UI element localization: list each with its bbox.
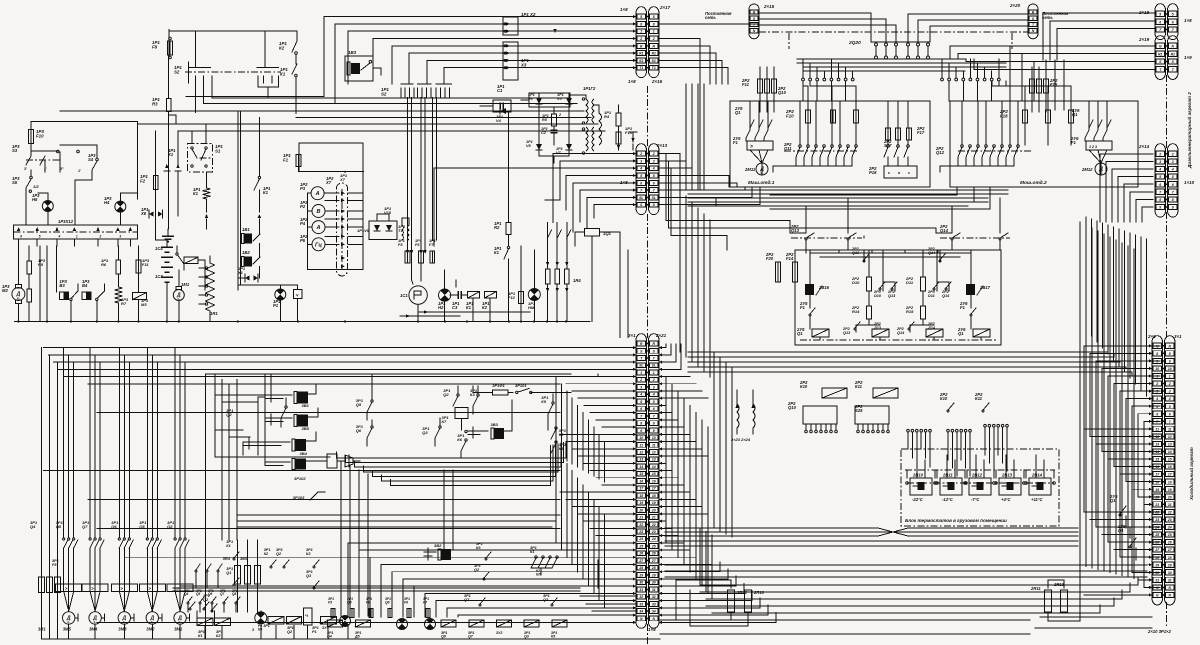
motor 3&#1052;1 [175, 591, 180, 611]
svg-text:Q2: Q2 [276, 552, 282, 556]
svg-text:26: 26 [1167, 541, 1172, 545]
wire X21 31 right [659, 562, 720, 572]
fuse row f8b [407, 609, 411, 618]
svg-text:1: 1 [640, 30, 642, 34]
svg-text:1: 1 [1156, 375, 1158, 379]
res 2R10 [745, 590, 752, 612]
riser f2 [320, 24, 335, 103]
comb up group b [947, 429, 950, 432]
bundle 527 b [665, 531, 1078, 533]
svg-text:3М2: 3М2 [146, 627, 155, 632]
contact 1P1 K2 [296, 31, 298, 41]
svg-text:3В3: 3В3 [491, 422, 499, 427]
svg-text:Q4: Q4 [30, 524, 36, 529]
svg-text:F8: F8 [152, 44, 158, 49]
lamp 3P1 bt0 [340, 616, 351, 627]
thermal box wires col3 [118, 584, 120, 592]
wire 1Q1 to A3 [600, 232, 620, 246]
box1 contactor feed [749, 101, 751, 112]
bus bl SL [59, 368, 637, 370]
fuse row q5 [350, 609, 354, 618]
motor 3&#1052;3 [119, 591, 124, 611]
motor 1M1 [173, 290, 184, 301]
wire B4 27 left [1114, 549, 1152, 551]
riser f6 [408, 53, 410, 84]
svg-text:Q13: Q13 [888, 294, 896, 298]
svg-text:23: 23 [638, 530, 643, 534]
thermostat 2B12 [969, 478, 991, 495]
svg-text:1В2: 1В2 [242, 250, 250, 255]
svg-text:8: 8 [1159, 198, 1161, 202]
relay 1P3 M3 [132, 293, 146, 300]
svg-text:5: 5 [1169, 405, 1171, 409]
svg-text:34: 34 [639, 610, 643, 614]
device Ch [294, 290, 303, 299]
contacts 2P2 D11 Q14 [933, 288, 935, 290]
coil 2P2 K11 [873, 388, 898, 398]
thermal box wires col2 [89, 584, 91, 592]
svg-text:Р3: Р3 [300, 186, 306, 191]
wire B4 5 left [1114, 383, 1152, 385]
wire X21 cell34 left [458, 614, 636, 616]
thermo top feeds [916, 455, 918, 478]
B4 bottom stub lines [1152, 345, 1160, 347]
Q13 upper verticals [863, 250, 865, 262]
svg-text:9: 9 [1172, 206, 1174, 210]
svg-text:Х7: Х7 [325, 180, 332, 185]
wire T from X15 [759, 25, 896, 42]
svg-text:1В1: 1В1 [242, 227, 250, 232]
wire X21 5 right [659, 383, 696, 385]
svg-text:29: 29 [651, 573, 656, 577]
svg-text:Q7: Q7 [464, 598, 470, 602]
svg-text:S1: S1 [215, 148, 221, 153]
svg-text:-7°С: -7°С [971, 497, 980, 502]
svg-text:S4: S4 [88, 157, 94, 162]
logic extra h1 [215, 456, 330, 458]
contact 1P1 K1 [295, 74, 298, 77]
coil 2P2 Q14 [926, 329, 943, 337]
wire R from X15 [759, 13, 871, 42]
motor 2M12 [1095, 163, 1107, 175]
svg-text:16: 16 [639, 479, 643, 483]
svg-text:Q3: Q3 [422, 430, 428, 435]
bundle below relaybox a [688, 351, 1060, 353]
relay 3B1 [297, 392, 308, 404]
wire X21 cell2 left [566, 383, 636, 385]
svg-text:1×8: 1×8 [620, 7, 628, 12]
wire X21 cell14 left [590, 470, 636, 472]
wire feeder line 8 to X17 [444, 67, 636, 69]
coil row r1 [328, 620, 343, 627]
svg-text:3М1: 3М1 [174, 627, 183, 632]
svg-text:2В12: 2В12 [971, 473, 983, 478]
svg-text:Q8: Q8 [232, 592, 236, 596]
svg-text:3: 3 [119, 235, 121, 239]
svg-text:3~: 3~ [67, 620, 71, 624]
lamp 1P1 H2 [439, 289, 451, 301]
svg-text:Р5: Р5 [300, 238, 306, 243]
wire X21 37 right [659, 605, 768, 615]
double line mid [173, 587, 580, 589]
thermostat 2B14 [1029, 478, 1051, 495]
contact 1P1 K1d [507, 246, 509, 248]
svg-text:15: 15 [652, 472, 656, 476]
coil 2P2 Q13 [872, 329, 889, 337]
device Ch2 [303, 608, 312, 625]
svg-text:Q7: Q7 [82, 524, 88, 529]
coil 3U1 bt [320, 617, 336, 625]
svg-text:3В5: 3В5 [302, 426, 310, 431]
motor feeder column 4 [146, 348, 148, 538]
drop A2-7 [586, 197, 588, 228]
coil row r7 [552, 620, 567, 627]
svg-text:КЛ: КЛ [536, 572, 541, 576]
logic extra v1 [214, 374, 216, 457]
wire X13 cell 7 left [580, 189, 636, 191]
svg-text:сеть: сеть [1042, 15, 1053, 20]
svg-text:4: 4 [652, 393, 655, 397]
coil 1P1 K2c [484, 292, 496, 299]
thermal 2US F1 [747, 141, 773, 150]
svg-text:29: 29 [1154, 563, 1159, 567]
svg-text:D11: D11 [906, 280, 914, 285]
svg-text:23: 23 [1167, 518, 1172, 522]
wire X21 c21 long [88, 498, 560, 500]
svg-text:3В2: 3В2 [434, 543, 442, 548]
bus h110 ext [60, 110, 70, 112]
wire X21 15 right [659, 455, 708, 457]
svg-text:26: 26 [651, 552, 656, 556]
diode 1P1 V7 [566, 144, 572, 150]
svg-text:2: 2 [1168, 382, 1171, 386]
svg-text:5: 5 [640, 400, 642, 404]
fuses 2P2 F17 [886, 128, 891, 140]
fuse trio 2P2 F11 [758, 79, 763, 93]
relaybox col2 wires [868, 250, 870, 277]
svg-text:-22°С: -22°С [912, 497, 924, 502]
wire B4 12 left [1090, 435, 1152, 437]
motor feeder column 3 [118, 348, 120, 538]
svg-text:к: к [888, 171, 890, 175]
svg-text:10: 10 [1155, 367, 1159, 371]
coil row r2 [355, 620, 370, 627]
svg-text:Мош.отд.2: Мош.отд.2 [1020, 180, 1047, 186]
comb up group c [984, 424, 987, 427]
res 2R11 [1045, 590, 1052, 612]
res 1P1 R4b [616, 113, 621, 126]
svg-text:24: 24 [651, 537, 656, 541]
svg-text:1С1: 1С1 [400, 293, 408, 298]
coil 3P1 K4 bt [268, 617, 284, 625]
meter 1P2 P2 [312, 205, 325, 218]
svg-text:14: 14 [1155, 450, 1159, 454]
svg-text:F14: F14 [786, 256, 794, 261]
svg-text:8: 8 [1172, 198, 1174, 202]
svg-text:11: 11 [639, 443, 643, 447]
wire meter box right [362, 143, 364, 269]
B4 nest verticals [1083, 346, 1085, 429]
wire R from X20 [908, 14, 1028, 42]
wire F10 riser [31, 121, 138, 123]
svg-text:Q1: Q1 [735, 110, 741, 115]
svg-text:13: 13 [652, 458, 656, 462]
br long h2 [700, 583, 1130, 592]
wire X21 6 right [659, 390, 702, 392]
svg-text:8: 8 [640, 22, 642, 26]
chain line center column [647, 86, 649, 148]
nest wire 1 [337, 442, 567, 458]
motor feeder column 2 [89, 348, 91, 538]
svg-text:1: 1 [76, 235, 78, 239]
svg-text:6: 6 [653, 181, 655, 185]
wire X21 27 right [659, 542, 684, 544]
wire X13 right 3 [659, 168, 692, 190]
wire X21 cell31 left [425, 592, 636, 594]
svg-text:3М5: 3М5 [63, 627, 72, 632]
fuse row f7 [426, 609, 430, 618]
lamp 1P3 H4 [115, 201, 126, 212]
lamp bt2 [397, 619, 408, 630]
svg-text:Q3: Q3 [524, 635, 529, 639]
svg-text:Q6: Q6 [385, 600, 390, 604]
svg-text:Q14: Q14 [942, 294, 950, 298]
wire v-block bottom [539, 151, 569, 156]
svg-text:2×18: 2×18 [1138, 10, 1150, 15]
svg-text:31: 31 [652, 588, 656, 592]
svg-text:Q1: Q1 [1118, 528, 1124, 533]
svg-text:Н5: Н5 [32, 197, 38, 202]
svg-text:SL: SL [639, 364, 643, 368]
wire B4 8 left [1132, 405, 1152, 407]
svg-text:2: 2 [1155, 382, 1158, 386]
svg-text:1′: 1′ [44, 167, 47, 171]
svg-text:30: 30 [1155, 571, 1159, 575]
svg-text:2М11: 2М11 [744, 167, 756, 172]
svg-text:А: А [315, 191, 320, 197]
wire X21 12 right [659, 433, 690, 435]
svg-text:3R4: 3R4 [223, 556, 231, 561]
svg-text:5: 5 [653, 400, 655, 404]
wire B4 0 left [1084, 345, 1152, 347]
wire X21 cell32 left [436, 600, 636, 602]
wire S2 right bracket [258, 83, 279, 87]
thermal box wires col4 [146, 584, 148, 592]
wire feeder line 7 to X17 [427, 59, 636, 61]
svg-text:Q4: Q4 [184, 592, 188, 596]
meter panel box [299, 142, 363, 144]
svg-text:Ч: Ч [305, 613, 308, 618]
svg-text:1: 1 [640, 371, 642, 375]
svg-text:с: с [908, 171, 910, 175]
svg-text:Х7: Х7 [339, 177, 346, 182]
thermal 2U6 F1 [1086, 141, 1112, 150]
vert feeders 3B2 [270, 374, 272, 391]
svg-text:Р2: Р2 [300, 204, 306, 209]
wire X21 29 right [659, 556, 696, 558]
svg-text:2В13: 2В13 [1001, 473, 1013, 478]
fuse 1P3 F11 [136, 260, 141, 273]
svg-text:1/2: 1/2 [33, 184, 39, 189]
wire B4 32 left [1144, 586, 1152, 588]
wire X21 cell4 left [578, 397, 636, 399]
wire X21 cell23 left [596, 535, 636, 537]
svg-text:22: 22 [651, 523, 656, 527]
wire X13 cell 3 left [560, 160, 636, 162]
box machine room 2 [950, 101, 1138, 187]
wire X21 cell5 left [584, 404, 636, 406]
res 2R12 [728, 590, 735, 612]
svg-text:Q3: Q3 [306, 574, 312, 578]
bus dist 2 [797, 62, 1006, 64]
svg-text:Q7: Q7 [220, 592, 224, 596]
wire top feeder [169, 31, 297, 57]
svg-text:18: 18 [1168, 480, 1172, 484]
wire B4 33 left [1084, 594, 1152, 596]
svg-text:4: 4 [1168, 397, 1171, 401]
svg-text:F10: F10 [786, 113, 794, 118]
fuse row q6 [388, 609, 392, 618]
svg-text:16: 16 [1168, 465, 1172, 469]
wire B4 31 left [1138, 579, 1152, 581]
wire X21 cell26 left [370, 556, 636, 558]
fuse 2P2 F10 a [806, 110, 811, 123]
br long h7 [1035, 627, 1152, 629]
svg-text:9: 9 [640, 429, 642, 433]
svg-text:1В3: 1В3 [348, 50, 357, 55]
relay 3B2 [441, 549, 451, 560]
wire X21 26 right [659, 535, 678, 537]
svg-text:Q2: Q2 [203, 598, 209, 602]
wire X21 13 right [659, 441, 696, 443]
extra vert stubs [195, 572, 197, 588]
svg-text:25: 25 [651, 544, 656, 548]
drop A2-4 [565, 176, 567, 211]
fuses 1P1 F5 F6 F7 [405, 251, 410, 263]
lamp 3P1 H bt [255, 612, 267, 624]
bus dist 3 [803, 66, 1006, 68]
svg-text:+11°С: +11°С [1031, 497, 1043, 502]
relaybox col3 wires [922, 250, 924, 277]
svg-text:11: 11 [1168, 427, 1172, 431]
svg-text:9: 9 [1159, 206, 1161, 210]
svg-text:Q1: Q1 [1110, 498, 1116, 503]
svg-text:F20: F20 [766, 256, 774, 261]
svg-text:Q2: Q2 [474, 568, 480, 572]
relay 2B17 [966, 284, 975, 295]
bundle below relaybox e [688, 371, 1040, 373]
svg-text:31: 31 [639, 588, 643, 592]
svg-text:К4: К4 [258, 628, 262, 632]
svg-text:6: 6 [653, 407, 655, 411]
svg-text:12: 12 [652, 450, 656, 454]
svg-text:SL: SL [639, 196, 643, 200]
svg-text:25: 25 [1167, 533, 1172, 537]
mid verticals very long [685, 84, 687, 190]
fuse 2P2 F18 b [1046, 110, 1051, 123]
svg-text:4: 4 [1155, 397, 1158, 401]
svg-text:10: 10 [652, 436, 656, 440]
svg-text:F18: F18 [1000, 113, 1008, 118]
wire X21 cell11 left [572, 448, 636, 450]
wire B4 15 left [1108, 458, 1152, 460]
A3 right arrowheads [659, 346, 662, 349]
comb up group a [907, 429, 910, 432]
thermo comb drops [907, 440, 909, 449]
drops to box1 fuses [803, 81, 808, 110]
switch mid [176, 253, 178, 255]
motor 2M11 [756, 163, 768, 175]
svg-text:2: 2 [1171, 152, 1174, 156]
svg-text:1×8: 1×8 [628, 79, 636, 84]
svg-text:F1: F1 [283, 157, 289, 162]
svg-text:R14: R14 [852, 309, 860, 314]
bundle 527 a [665, 528, 1078, 536]
coil 3P1 K1 bt [197, 618, 213, 626]
svg-text:1Р3Х12: 1Р3Х12 [58, 219, 74, 224]
res 2P2 R15 [921, 306, 926, 319]
svg-text:>: > [148, 586, 151, 591]
svg-text:К1: К1 [193, 191, 199, 196]
A3 bottom lines [580, 595, 636, 597]
thermostat 2B13 [999, 478, 1021, 495]
svg-text:R1: R1 [1171, 52, 1175, 56]
svg-text:13: 13 [1155, 443, 1159, 447]
svg-text:Дизельгенераторный агрегат 2: Дизельгенераторный агрегат 2 [1186, 92, 1192, 169]
svg-text:3Р102: 3Р102 [294, 476, 306, 481]
svg-text:К1: К1 [198, 634, 202, 638]
relay 1B3 [345, 56, 373, 81]
svg-text:2: 2 [639, 378, 642, 382]
bundle mid right c [688, 197, 988, 199]
svg-text:3~: 3~ [17, 296, 21, 300]
wires 1C1 top [412, 251, 413, 284]
svg-text:С3: С3 [452, 305, 458, 310]
right bundle verticals [1079, 222, 1081, 565]
br elbows [699, 528, 701, 585]
wire X21 19 right [659, 484, 684, 486]
wire B4 18 left [1126, 481, 1152, 483]
svg-text:F11: F11 [742, 82, 750, 87]
wire X21 7 right [659, 397, 708, 399]
fuse row f5 [331, 609, 335, 618]
br extra h [660, 619, 1030, 621]
wire feeder line 4 to X17 [373, 38, 636, 40]
svg-text:Q10: Q10 [778, 90, 787, 95]
svg-text:2В16: 2В16 [818, 285, 830, 290]
svg-text:2: 2 [639, 152, 642, 156]
box 3P1 K7 [455, 407, 468, 418]
svg-text:К2: К2 [482, 305, 488, 310]
svg-text:4: 4 [58, 235, 61, 239]
nest wire 6 [382, 445, 554, 481]
svg-text:6: 6 [20, 235, 22, 239]
wire B4 10 left [1144, 420, 1152, 422]
svg-text:19: 19 [639, 501, 643, 505]
wire feeder line 6 to X17 [409, 52, 636, 54]
svg-text:Р4: Р4 [300, 221, 306, 226]
wire X21 cell28 left [392, 571, 636, 573]
wire X21 cell30 left [414, 585, 636, 587]
svg-text:6: 6 [640, 407, 642, 411]
svg-text:Н4: Н4 [104, 200, 110, 205]
svg-text:Блок термостатов в грузовом по: Блок термостатов в грузовом помещении [905, 518, 1007, 523]
bottom bus main [42, 638, 661, 640]
wire X21 1 right [659, 344, 671, 355]
wires B2 drop [1009, 46, 1011, 101]
svg-text:Q1: Q1 [226, 571, 231, 575]
wire arrow row [418, 311, 530, 313]
